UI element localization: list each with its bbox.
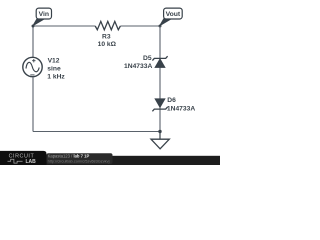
- zener diode D5: [124, 55, 168, 70]
- CircuitLab logo: [0, 151, 47, 165]
- svg-text:10 kΩ: 10 kΩ: [98, 41, 117, 48]
- wire left vertical: [32, 26, 34, 57]
- ground: [151, 132, 169, 149]
- svg-text:R3: R3: [102, 33, 111, 40]
- node Vout flag: [159, 8, 183, 27]
- svg-text:1 kHz: 1 kHz: [47, 73, 65, 80]
- wire right vertical: [159, 26, 161, 132]
- wire left lower vertical: [32, 77, 34, 132]
- svg-text:V12: V12: [48, 58, 60, 65]
- wire bottom horizontal: [33, 131, 160, 133]
- junction node at ground tap: [158, 130, 161, 133]
- svg-text:sine: sine: [47, 66, 61, 73]
- svg-text:http://circuitlab.com/c/5zv683: http://circuitlab.com/c/5zv683Gzvkvj: [48, 159, 110, 164]
- svg-text:D5: D5: [143, 55, 152, 62]
- voltage source V12: [23, 57, 66, 80]
- svg-text:D6: D6: [167, 97, 176, 104]
- zener diode D6: [152, 97, 195, 112]
- footer bar: [0, 156, 220, 165]
- wire top-right segment: [120, 25, 160, 27]
- svg-text:LAB: LAB: [26, 159, 37, 165]
- svg-text:1N4733A: 1N4733A: [124, 63, 152, 70]
- svg-text:Vin: Vin: [39, 11, 49, 18]
- node Vin flag: [32, 8, 52, 27]
- svg-text:Vout: Vout: [166, 11, 181, 18]
- resistor R3: [95, 21, 120, 48]
- svg-text:1N4733A: 1N4733A: [167, 106, 195, 113]
- wire top-left segment: [33, 25, 95, 27]
- footer info text: [47, 153, 113, 164]
